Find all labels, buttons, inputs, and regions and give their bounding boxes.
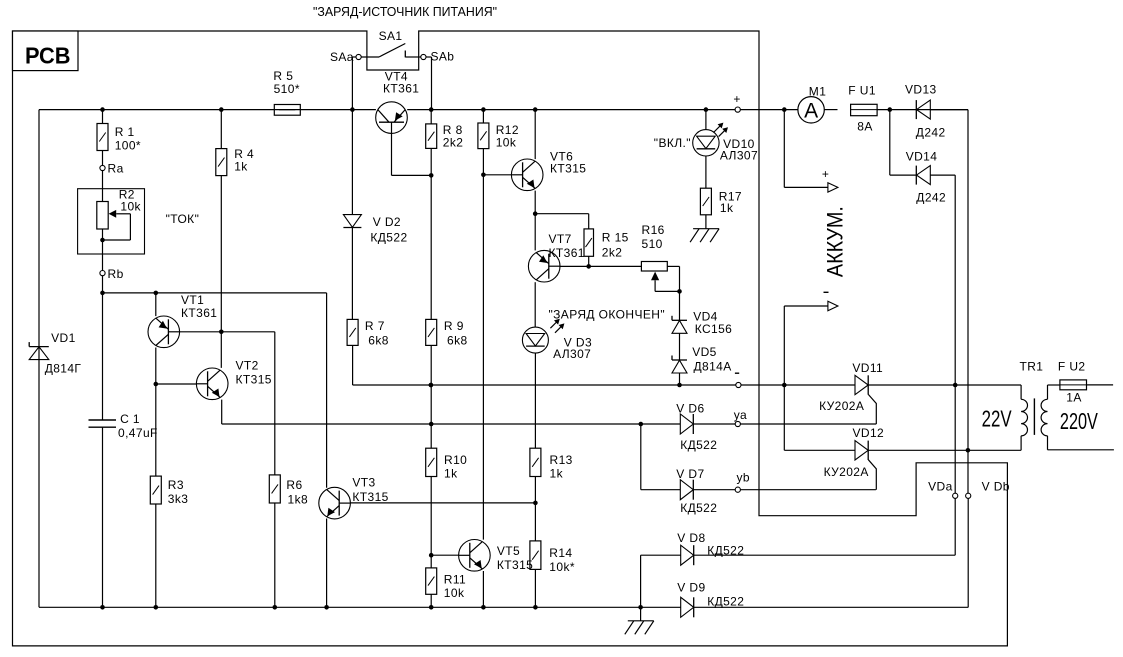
diode VD2 (343, 215, 361, 228)
wire VD7 drop (640, 424, 642, 490)
svg-text:R 7: R 7 (365, 319, 385, 333)
wire R10 link (430, 385, 432, 448)
svg-text:КТ315: КТ315 (352, 490, 388, 504)
svg-text:"ЗАРЯД ОКОНЧЕН": "ЗАРЯД ОКОНЧЕН" (549, 308, 666, 322)
wire R6 drop (274, 332, 276, 475)
wire VD8 riser (640, 555, 642, 607)
svg-text:6k8: 6k8 (447, 334, 468, 348)
svg-text:R10: R10 (444, 453, 467, 467)
diode VD6 (680, 414, 693, 434)
svg-text:6k8: 6k8 (368, 334, 389, 348)
wire VD14 drop (889, 110, 891, 176)
wire bias corner down to VT3 (326, 293, 328, 488)
svg-text:510*: 510* (274, 82, 300, 96)
svg-text:1A: 1A (1066, 391, 1081, 405)
battery minus arrow (828, 301, 838, 310)
TR1 secondary stub top (1047, 385, 1049, 399)
svg-text:R11: R11 (444, 573, 466, 587)
wire R15 bottom (588, 256, 590, 266)
junction R3 bottom (154, 605, 159, 610)
svg-text:8A: 8A (857, 120, 872, 134)
svg-text:Д242: Д242 (916, 191, 946, 205)
junction SAa bus (350, 107, 355, 112)
transistor VT1 (148, 316, 180, 348)
wire R7 to minus bus (352, 345, 354, 385)
wire secondary top right (1087, 384, 1114, 386)
wire VD10 top (705, 110, 707, 130)
junction R8 bottom (429, 173, 434, 178)
svg-text:C 1: C 1 (120, 412, 140, 426)
svg-text:VD1: VD1 (51, 331, 76, 345)
wire VD13 corner (930, 109, 968, 111)
VD3 arrows (550, 320, 558, 328)
junction VT2 base (154, 382, 159, 387)
svg-text:R 15: R 15 (602, 231, 629, 245)
svg-text:SA1: SA1 (379, 29, 403, 43)
wire SAa to lever (361, 56, 379, 58)
wire minus bus (431, 384, 855, 386)
wire VT4 base drop (391, 133, 393, 175)
svg-text:АККУМ.: АККУМ. (823, 206, 848, 277)
svg-text:АЛ307: АЛ307 (720, 149, 758, 163)
svg-text:КТ361: КТ361 (181, 306, 217, 320)
junction VD12 winding (966, 448, 971, 453)
wire SAa corner (352, 56, 356, 58)
wire VD6 to ya (694, 423, 877, 425)
ground R17 (705, 215, 707, 229)
svg-text:КТ315: КТ315 (497, 558, 533, 572)
wire VT2 base (156, 383, 197, 385)
junction wireB R10 (429, 422, 434, 427)
junction VT5 emitter (481, 605, 486, 610)
wire R6 bottom (274, 503, 276, 607)
node SAb contact (421, 54, 426, 59)
wire VD8 left (641, 554, 681, 556)
transistor VT5 (459, 540, 491, 572)
R2 wiper arrow (109, 210, 117, 218)
junction VD14 top (888, 107, 893, 112)
battery plus arrow (828, 183, 838, 192)
junction VD5 minus bus (677, 383, 682, 388)
svg-text:22V: 22V (982, 406, 1012, 432)
wire R1 to Ra (102, 151, 104, 169)
svg-text:"ТОК": "ТОК" (166, 212, 200, 226)
svg-text:R6: R6 (286, 478, 302, 492)
resistor R4 (216, 149, 227, 176)
wire bias row (103, 292, 327, 294)
junction bias-VT1 (154, 291, 159, 296)
wire VD4 to VD5 (679, 333, 681, 360)
wire R3 rail (155, 384, 157, 476)
wire C1 rail lower (102, 427, 104, 607)
wire tick to SAb (405, 56, 421, 58)
svg-text:КТ315: КТ315 (550, 162, 586, 176)
wire R15 stub (588, 214, 590, 229)
svg-text:VT2: VT2 (236, 359, 259, 373)
wire VT7 collector (534, 282, 536, 327)
svg-text:V D8: V D8 (677, 531, 705, 545)
junction VDa column top (953, 383, 958, 388)
fuse FU2 (1060, 380, 1087, 390)
wire R3 bottom (155, 504, 157, 607)
svg-text:VD5: VD5 (692, 345, 717, 359)
svg-text:510: 510 (642, 237, 663, 251)
svg-text:Д814А: Д814А (694, 360, 732, 374)
svg-text:F U2: F U2 (1058, 360, 1086, 374)
junction VT3 emitter (324, 605, 329, 610)
junction R11 bottom (429, 605, 434, 610)
svg-text:VT5: VT5 (497, 544, 520, 558)
svg-text:уа: уа (734, 408, 747, 422)
junction R13 R14 VT3 (533, 501, 538, 506)
wire VD14 corner (930, 174, 955, 176)
svg-text:VD11: VD11 (852, 361, 883, 375)
wire R14 bottom (534, 569, 536, 607)
wire minus bus right (868, 384, 1021, 386)
wire R11 bottom (430, 594, 432, 607)
wire bottom bus right of VD9 (693, 606, 968, 608)
wire VT6e to R15 (535, 213, 589, 215)
junction R2 wiper (100, 238, 105, 243)
wire R8 bottom (430, 148, 432, 175)
junction R16 VD4 (677, 289, 682, 294)
svg-text:VD13: VD13 (905, 83, 937, 97)
transistor VT3 (319, 487, 351, 519)
zener VD5 (672, 359, 687, 361)
svg-text:КС156: КС156 (695, 322, 733, 336)
wire VT6 base (483, 174, 511, 176)
led VD3 (522, 327, 548, 353)
svg-text:Д814Г: Д814Г (45, 362, 82, 376)
wire VDb segments (967, 450, 969, 493)
junction ground bottom (638, 605, 643, 610)
svg-text:+: + (822, 167, 829, 181)
svg-text:R 9: R 9 (444, 319, 464, 333)
junction SAb bus (429, 107, 434, 112)
wire VT6 collector (534, 110, 536, 160)
wire R1 rail top (102, 110, 104, 124)
wire VD12 cathode (868, 449, 1021, 451)
resistor R10 (426, 448, 437, 476)
svg-text:1k: 1k (550, 467, 564, 481)
diode VD13 (917, 100, 931, 119)
capacitor C1 (89, 419, 117, 421)
wire VD2 rail upper (351, 110, 353, 215)
wire R4 rail top (220, 110, 222, 149)
svg-text:V Db: V Db (982, 480, 1010, 494)
ammeter M1 (798, 97, 824, 123)
TR1 primary stub top (1020, 385, 1022, 399)
led VD10 (693, 130, 719, 156)
wire R16 right end (667, 265, 679, 267)
wire battery plus (783, 110, 785, 188)
potentiometer R2 box (78, 189, 145, 254)
junction VT1 base VT2 collector (219, 330, 224, 335)
svg-text:3k3: 3k3 (168, 492, 189, 506)
PCB name box (13, 31, 79, 71)
wire left rail (38, 110, 40, 608)
wire Rb down (102, 276, 104, 293)
resistor R15 (584, 229, 594, 256)
svg-text:V D6: V D6 (676, 402, 704, 416)
svg-text:VT7: VT7 (549, 232, 572, 246)
wire VT1 base (180, 331, 275, 333)
wire VD10 to R17 (705, 156, 707, 188)
svg-text:Д242: Д242 (916, 126, 946, 140)
wire R9 to minus bus (430, 345, 432, 385)
TR1 secondary winding (1041, 399, 1047, 436)
junction R9 minus bus (429, 383, 434, 388)
svg-text:SAa: SAa (330, 50, 354, 64)
transistor VT6 (511, 159, 543, 191)
svg-text:КД522: КД522 (680, 501, 717, 515)
svg-text:2k2: 2k2 (443, 136, 464, 150)
node SAa contact (356, 54, 361, 59)
node VDb (966, 493, 971, 498)
svg-text:VD14: VD14 (906, 150, 938, 164)
svg-text:уb: уb (737, 471, 750, 485)
node Ra (100, 165, 105, 170)
wire R10 to VT5 base (430, 477, 432, 568)
VD12 gate (868, 460, 876, 490)
svg-text:220V: 220V (1060, 408, 1098, 434)
svg-text:РСВ: РСВ (25, 43, 71, 69)
wire Ra to R2 (102, 171, 104, 202)
wire VDa down (954, 498, 956, 555)
wire VD7 to yb (694, 489, 876, 491)
thyristor VD12 (855, 441, 868, 460)
svg-text:КД522: КД522 (370, 231, 407, 245)
resistor R9 (426, 319, 437, 345)
junction VT6 emitter (533, 211, 538, 216)
resistor R8 (426, 124, 437, 148)
svg-text:V D2: V D2 (373, 215, 401, 229)
junction VT6 collector bus (533, 107, 538, 112)
svg-text:10k: 10k (444, 586, 465, 600)
label minus terminal (735, 372, 739, 374)
svg-text:1k: 1k (720, 201, 734, 215)
svg-text:КД522: КД522 (680, 438, 717, 452)
junction R14 bottom (533, 605, 538, 610)
wire VD8 to VDa (694, 554, 955, 556)
fuse FU1 (851, 104, 878, 115)
svg-text:Ra: Ra (108, 162, 124, 176)
junction VD6 feed (639, 422, 644, 427)
svg-text:TR1: TR1 (1020, 360, 1044, 374)
VD11 gate (868, 395, 876, 425)
wire yb left (641, 489, 681, 491)
svg-text:2k2: 2k2 (602, 246, 623, 260)
junction VD10 top (704, 107, 709, 112)
svg-text:R3: R3 (168, 478, 184, 492)
svg-text:VT1: VT1 (181, 293, 204, 307)
svg-text:R14: R14 (549, 546, 572, 560)
junction R15 base (586, 264, 591, 269)
svg-text:M1: M1 (809, 85, 826, 99)
svg-text:10k*: 10k* (549, 560, 575, 574)
wire VD2 to R7 (351, 228, 353, 320)
svg-text:КД522: КД522 (707, 595, 744, 609)
thyristor VD11 (855, 375, 868, 394)
svg-text:0,47uF: 0,47uF (118, 426, 158, 440)
junction minus bus R7R9 (429, 383, 434, 388)
svg-text:КТ361: КТ361 (549, 246, 585, 260)
wire VT5 base (431, 554, 458, 556)
transistor VT4 (376, 102, 408, 134)
wire C1 rail upper (102, 293, 104, 420)
wire R8 to R9 (430, 175, 432, 319)
wire R8 rail top (430, 110, 432, 124)
resistor R14 (530, 541, 541, 570)
junction R12 VT6 base (481, 173, 486, 178)
junction battery minus (782, 383, 787, 388)
svg-text:КТ361: КТ361 (383, 81, 419, 95)
wire VT1 emitter (155, 293, 157, 316)
TR1 secondary stub bottom (1047, 436, 1049, 450)
wire VT7 base to R16 (560, 265, 641, 267)
resistor R6 (269, 475, 280, 503)
junction bias-C1 (100, 291, 105, 296)
svg-text:АЛ307: АЛ307 (553, 347, 591, 361)
wire VT5 collector (482, 175, 484, 540)
node plus terminal (735, 107, 740, 112)
svg-text:R 1: R 1 (115, 125, 135, 139)
junction R12 top (481, 107, 486, 112)
resistor R1 (97, 124, 108, 151)
junction C1 bottom (100, 605, 105, 610)
junction battery plus (782, 107, 787, 112)
junction R1 top (100, 107, 105, 112)
svg-text:A: A (804, 99, 818, 122)
svg-text:"ЗАРЯД-ИСТОЧНИК ПИТАНИЯ": "ЗАРЯД-ИСТОЧНИК ПИТАНИЯ" (313, 5, 497, 19)
resistor R5 (274, 105, 300, 116)
node Rb (100, 271, 105, 276)
potentiometer R16 (641, 262, 667, 272)
node ya terminal (735, 421, 740, 426)
svg-text:"ВКЛ.": "ВКЛ." (654, 136, 691, 150)
svg-text:V D7: V D7 (676, 467, 704, 481)
svg-text:VD12: VD12 (853, 426, 885, 440)
zener VD1 (29, 346, 49, 348)
wire top bus segment 1 (39, 109, 376, 111)
node yb terminal (735, 487, 740, 492)
wire VT1 collector (155, 348, 157, 385)
wire R2 to Rb (102, 229, 104, 271)
VD10 arrows (714, 124, 722, 132)
junction R4 top (219, 107, 224, 112)
wire VD3 to R13 rail (534, 353, 536, 448)
diode VD8 (681, 545, 694, 565)
wire secondary bottom (1048, 449, 1114, 451)
wire VT3 base (350, 502, 535, 504)
resistor R11 (426, 568, 437, 594)
svg-text:КУ202А: КУ202А (824, 465, 869, 479)
resistor R13 (530, 448, 541, 476)
wire top bus segment 3 (824, 109, 837, 111)
svg-text:R13: R13 (550, 453, 573, 467)
resistor R17 (700, 188, 711, 215)
wire to VD4 (679, 291, 681, 320)
svg-text:VT3: VT3 (352, 476, 375, 490)
svg-text:1k: 1k (444, 467, 458, 481)
svg-text:КУ202А: КУ202А (819, 399, 864, 413)
wire R4 to VT1 base junction (220, 176, 222, 368)
wire VD5 to minus bus (679, 373, 681, 385)
ground bottom (640, 607, 642, 621)
wire VT5 emitter (482, 571, 484, 607)
junction VT5 base (429, 553, 434, 558)
svg-text:1k: 1k (234, 160, 248, 174)
resistor R2 body (97, 202, 108, 230)
wire VT3 emitter (326, 519, 328, 608)
TR1 primary stub bottom (1020, 436, 1022, 451)
wire battery minus (783, 306, 785, 385)
wire R12 rail top (482, 110, 484, 123)
R16 wiper (651, 272, 659, 281)
transistor VT2 (196, 368, 228, 400)
svg-text:10k: 10k (120, 200, 141, 214)
svg-text:VDa: VDa (928, 480, 953, 494)
svg-text:100*: 100* (115, 139, 141, 153)
wire VT2 emitter (221, 400, 223, 424)
svg-text:10k: 10k (496, 136, 517, 150)
resistor R7 (347, 319, 358, 345)
svg-text:R16: R16 (642, 223, 665, 237)
switch SA1 lever (379, 44, 405, 58)
switch SAb tick (404, 51, 406, 58)
wire VD12 feed (783, 385, 785, 450)
wire bottom bus (39, 606, 681, 608)
svg-text:F U1: F U1 (848, 84, 876, 98)
diode VD9 (681, 597, 694, 617)
wire R13 to R14 (534, 477, 536, 541)
svg-text:1k8: 1k8 (288, 493, 309, 507)
svg-text:R 5: R 5 (273, 69, 293, 83)
wire VT6 emitter (534, 191, 536, 214)
node VDa (953, 493, 958, 498)
TR1 core (1033, 398, 1035, 435)
node minus terminal (736, 382, 741, 387)
junction R6 bottom (273, 605, 278, 610)
wire VT4 base to R8 (392, 174, 432, 176)
svg-text:КТ315: КТ315 (236, 372, 272, 386)
svg-text:V D9: V D9 (677, 581, 705, 595)
resistor R3 (150, 476, 161, 504)
TR1 primary winding (1021, 399, 1027, 436)
wire secondary top (1048, 384, 1060, 386)
svg-text:+: + (733, 92, 740, 106)
wire R12 bottom (482, 149, 484, 175)
wire top bus segment 2 (407, 109, 798, 111)
transistor VT7 (528, 250, 560, 282)
wire top bus segment 4 (877, 109, 968, 111)
svg-text:Rb: Rb (108, 267, 124, 281)
svg-text:SAb: SAb (431, 50, 455, 64)
wire SAb corner (426, 56, 432, 58)
zener VD4 (672, 319, 687, 321)
wire VT7 emitter (534, 214, 536, 251)
diode VD14 (917, 166, 931, 185)
label battery minus (824, 291, 829, 293)
diode VD7 (680, 480, 693, 500)
resistor R12 (478, 123, 489, 149)
